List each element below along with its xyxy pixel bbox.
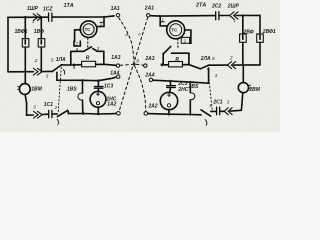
svg-text:Z: Z xyxy=(34,58,38,63)
svg-text:1: 1 xyxy=(209,103,212,108)
svg-text:1: 1 xyxy=(161,17,164,22)
svg-text:2А3: 2А3 xyxy=(144,56,154,62)
svg-text:3: 3 xyxy=(33,104,36,109)
svg-text:3: 3 xyxy=(215,73,218,78)
svg-text:2ШР: 2ШР xyxy=(227,3,240,9)
svg-text:R: R xyxy=(86,55,90,61)
svg-text:а: а xyxy=(76,46,79,51)
svg-text:2С2: 2С2 xyxy=(211,4,221,10)
svg-text:1А2: 1А2 xyxy=(107,102,116,108)
svg-text:ТС: ТС xyxy=(85,27,92,32)
svg-text:ТС: ТС xyxy=(171,28,178,33)
svg-text:1ВМ: 1ВМ xyxy=(31,87,42,93)
svg-text:3: 3 xyxy=(97,46,100,51)
svg-text:1ШР: 1ШР xyxy=(27,6,39,12)
svg-text:1А1: 1А1 xyxy=(111,6,120,12)
svg-text:2С1: 2С1 xyxy=(212,99,222,105)
svg-text:2ТА: 2ТА xyxy=(195,3,206,9)
svg-text:1ВS: 1ВS xyxy=(67,87,77,93)
svg-text:1С3: 1С3 xyxy=(104,84,113,90)
svg-text:2ЛА: 2ЛА xyxy=(200,56,211,62)
svg-text:1С1: 1С1 xyxy=(44,102,53,108)
svg-text:2: 2 xyxy=(54,105,58,110)
svg-text:1А3: 1А3 xyxy=(111,55,120,61)
svg-text:3: 3 xyxy=(227,99,230,104)
svg-text:2ВМ: 2ВМ xyxy=(248,87,260,93)
svg-text:R: R xyxy=(175,57,179,63)
svg-text:2ВS: 2ВS xyxy=(188,84,199,90)
svg-text:1: 1 xyxy=(233,18,236,23)
svg-text:2А4: 2А4 xyxy=(144,72,154,78)
svg-text:2ВФ1: 2ВФ1 xyxy=(262,29,276,35)
svg-text:1: 1 xyxy=(32,19,35,24)
svg-text:б: б xyxy=(136,58,139,63)
svg-text:2НС: 2НС xyxy=(177,87,188,93)
svg-text:2А2: 2А2 xyxy=(147,103,157,109)
svg-text:2А1: 2А1 xyxy=(144,6,154,12)
svg-text:1ВФ: 1ВФ xyxy=(34,29,44,35)
svg-text:3: 3 xyxy=(46,74,49,79)
svg-text:1: 1 xyxy=(100,22,103,27)
svg-text:1ТА: 1ТА xyxy=(64,3,74,9)
svg-text:Z: Z xyxy=(229,55,233,60)
svg-text:1СZ: 1СZ xyxy=(43,6,53,12)
svg-text:1ЛА: 1ЛА xyxy=(56,57,66,63)
svg-text:1ВФ1: 1ВФ1 xyxy=(15,29,28,35)
svg-text:2: 2 xyxy=(183,38,187,43)
svg-text:а: а xyxy=(125,32,128,37)
svg-text:2ВФ: 2ВФ xyxy=(243,29,254,35)
svg-text:1А4: 1А4 xyxy=(110,71,119,77)
